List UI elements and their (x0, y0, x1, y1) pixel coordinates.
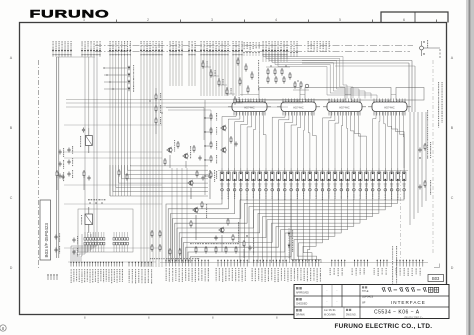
svg-text:I/F: I/F (362, 301, 366, 305)
reference box B03 (428, 264, 444, 282)
note text right margin lower (392, 246, 397, 298)
diode cluster D1-D4 (103, 65, 134, 92)
title strip tab top-right (381, 12, 448, 23)
zener diode column mid fan (288, 228, 294, 258)
capacitor cluster left margin 2 (54, 233, 78, 256)
svg-text:·: · (336, 300, 337, 304)
svg-text:1: 1 (83, 18, 85, 22)
svg-text:2: 2 (147, 18, 149, 22)
connector bottom row (main) (160, 260, 428, 267)
svg-text:HD74HC: HD74HC (339, 106, 350, 110)
svg-text:C: C (451, 196, 454, 200)
wire boundary dash line 2 (400, 170, 402, 258)
svg-text:DWG.NO.: DWG.NO. (346, 315, 357, 317)
svg-text:·: · (326, 300, 327, 304)
svg-text:B03 I/F 05P0423: B03 I/F 05P0423 (44, 223, 49, 258)
circled sheet number (0, 325, 6, 331)
svg-text:DRAWN: DRAWN (296, 314, 305, 317)
diode/resistor chain mid-left (204, 100, 237, 195)
border zone marks bottom (84, 317, 342, 319)
drawing border frame (20, 23, 447, 315)
op-amp U2 HD74HC7734 (277, 99, 320, 116)
svg-text:·: · (336, 289, 337, 293)
note text right margin (427, 82, 443, 159)
svg-text:C: C (10, 196, 13, 200)
border zone labels (10, 18, 454, 270)
svg-text:HD74HC: HD74HC (384, 106, 395, 110)
resistor/opto array row (218, 168, 408, 200)
op-amp U4 HD74HC7734 (368, 99, 411, 116)
wire right vertical bus (410, 112, 426, 225)
connector top pin rows (52, 41, 288, 267)
IC U5 (84, 232, 129, 252)
title block (294, 285, 449, 320)
svg-text:(05.001.2052.1): (05.001.2052.1) (404, 315, 422, 319)
svg-text:3: 3 (211, 18, 213, 22)
wire fan right (bus reversal) (240, 199, 404, 263)
svg-text:6: 6 (403, 18, 405, 22)
connector bottom-left row (68, 234, 156, 284)
wire boundary dash line (432, 60, 434, 255)
capacitor cluster left margin 1 (58, 146, 73, 181)
svg-text:HD74HC: HD74HC (244, 106, 255, 110)
connector label stubs (243, 42, 259, 56)
reference box B03 I/F 05P0423 (40, 200, 51, 260)
svg-text:INTERFACE: INTERFACE (391, 300, 426, 305)
wire long horizontals right (302, 61, 415, 113)
FURUNO logo (30, 8, 110, 20)
transistor Q fan cluster 3 (243, 235, 254, 258)
wire rail taps (240, 100, 398, 102)
svg-text:5: 5 (339, 18, 341, 22)
connector bottom labels (166, 268, 421, 282)
wire bus maze (nested routing) (222, 112, 404, 168)
capacitor cluster right 2 (418, 180, 431, 195)
transistor pair cluster mid-left (164, 108, 211, 169)
component cluster bottom-left (150, 230, 239, 259)
svg-text:Jun.'45-'91: Jun.'45-'91 (324, 309, 336, 312)
svg-text:D: D (10, 266, 13, 270)
wire horizontal crossings left (64, 100, 330, 249)
wire top horizontal bus (95, 45, 413, 47)
relay motif K1 (293, 80, 309, 90)
svg-text:M.OGAWA: M.OGAWA (324, 314, 336, 317)
svg-text:·: · (326, 289, 327, 293)
wire bundle to right (263, 52, 377, 98)
svg-text:APPROVED: APPROVED (296, 292, 309, 295)
component row above T2 (88, 199, 105, 204)
resistor pairs left margin (56, 170, 91, 190)
transformer T1 (80, 128, 92, 154)
svg-text:B03: B03 (432, 276, 440, 281)
svg-text:4: 4 (275, 18, 277, 22)
transistor Q array-left cluster (187, 170, 215, 199)
svg-text:CHECKED: CHECKED (296, 304, 308, 306)
wire left verticals (39, 57, 98, 270)
transistor Q top-right (420, 40, 440, 58)
svg-text:05P0423: 05P0423 (362, 295, 374, 299)
svg-text:C5534 − K06 − A: C5534 − K06 − A (374, 310, 420, 316)
wire group2 corner bends (110, 165, 208, 196)
svg-text:TITLE: TITLE (362, 290, 369, 293)
resistor chain left-mid (149, 88, 162, 134)
svg-text:D: D (451, 266, 454, 270)
transistor Q fan cluster 1 (190, 201, 207, 240)
connector pins under reference box (47, 274, 57, 280)
transistor Q fan cluster 2 (214, 218, 239, 252)
svg-text:FURUNO: FURUNO (30, 8, 110, 20)
wire labels above bundle (307, 41, 329, 52)
capacitor cluster right 1 (418, 142, 431, 159)
transformer T2 (78, 207, 133, 252)
op-amp U1 HD74HC7734 (228, 99, 271, 116)
component cluster above U2 (266, 65, 291, 83)
op-amp U3 HD74HC7734 (323, 99, 366, 116)
svg-text:HD74HC: HD74HC (293, 106, 304, 110)
wire fan left (bus reversal) (166, 199, 291, 263)
resistor cluster above U1 (237, 58, 259, 94)
scan page right edge (466, 0, 474, 335)
wire mid-left verticals (172, 168, 187, 261)
svg-text:FURUNO ELECTRIC CO., LTD.: FURUNO ELECTRIC CO., LTD. (335, 323, 433, 330)
diode cascade mid-top (202, 60, 243, 104)
wire IC group boxes (240, 88, 424, 101)
